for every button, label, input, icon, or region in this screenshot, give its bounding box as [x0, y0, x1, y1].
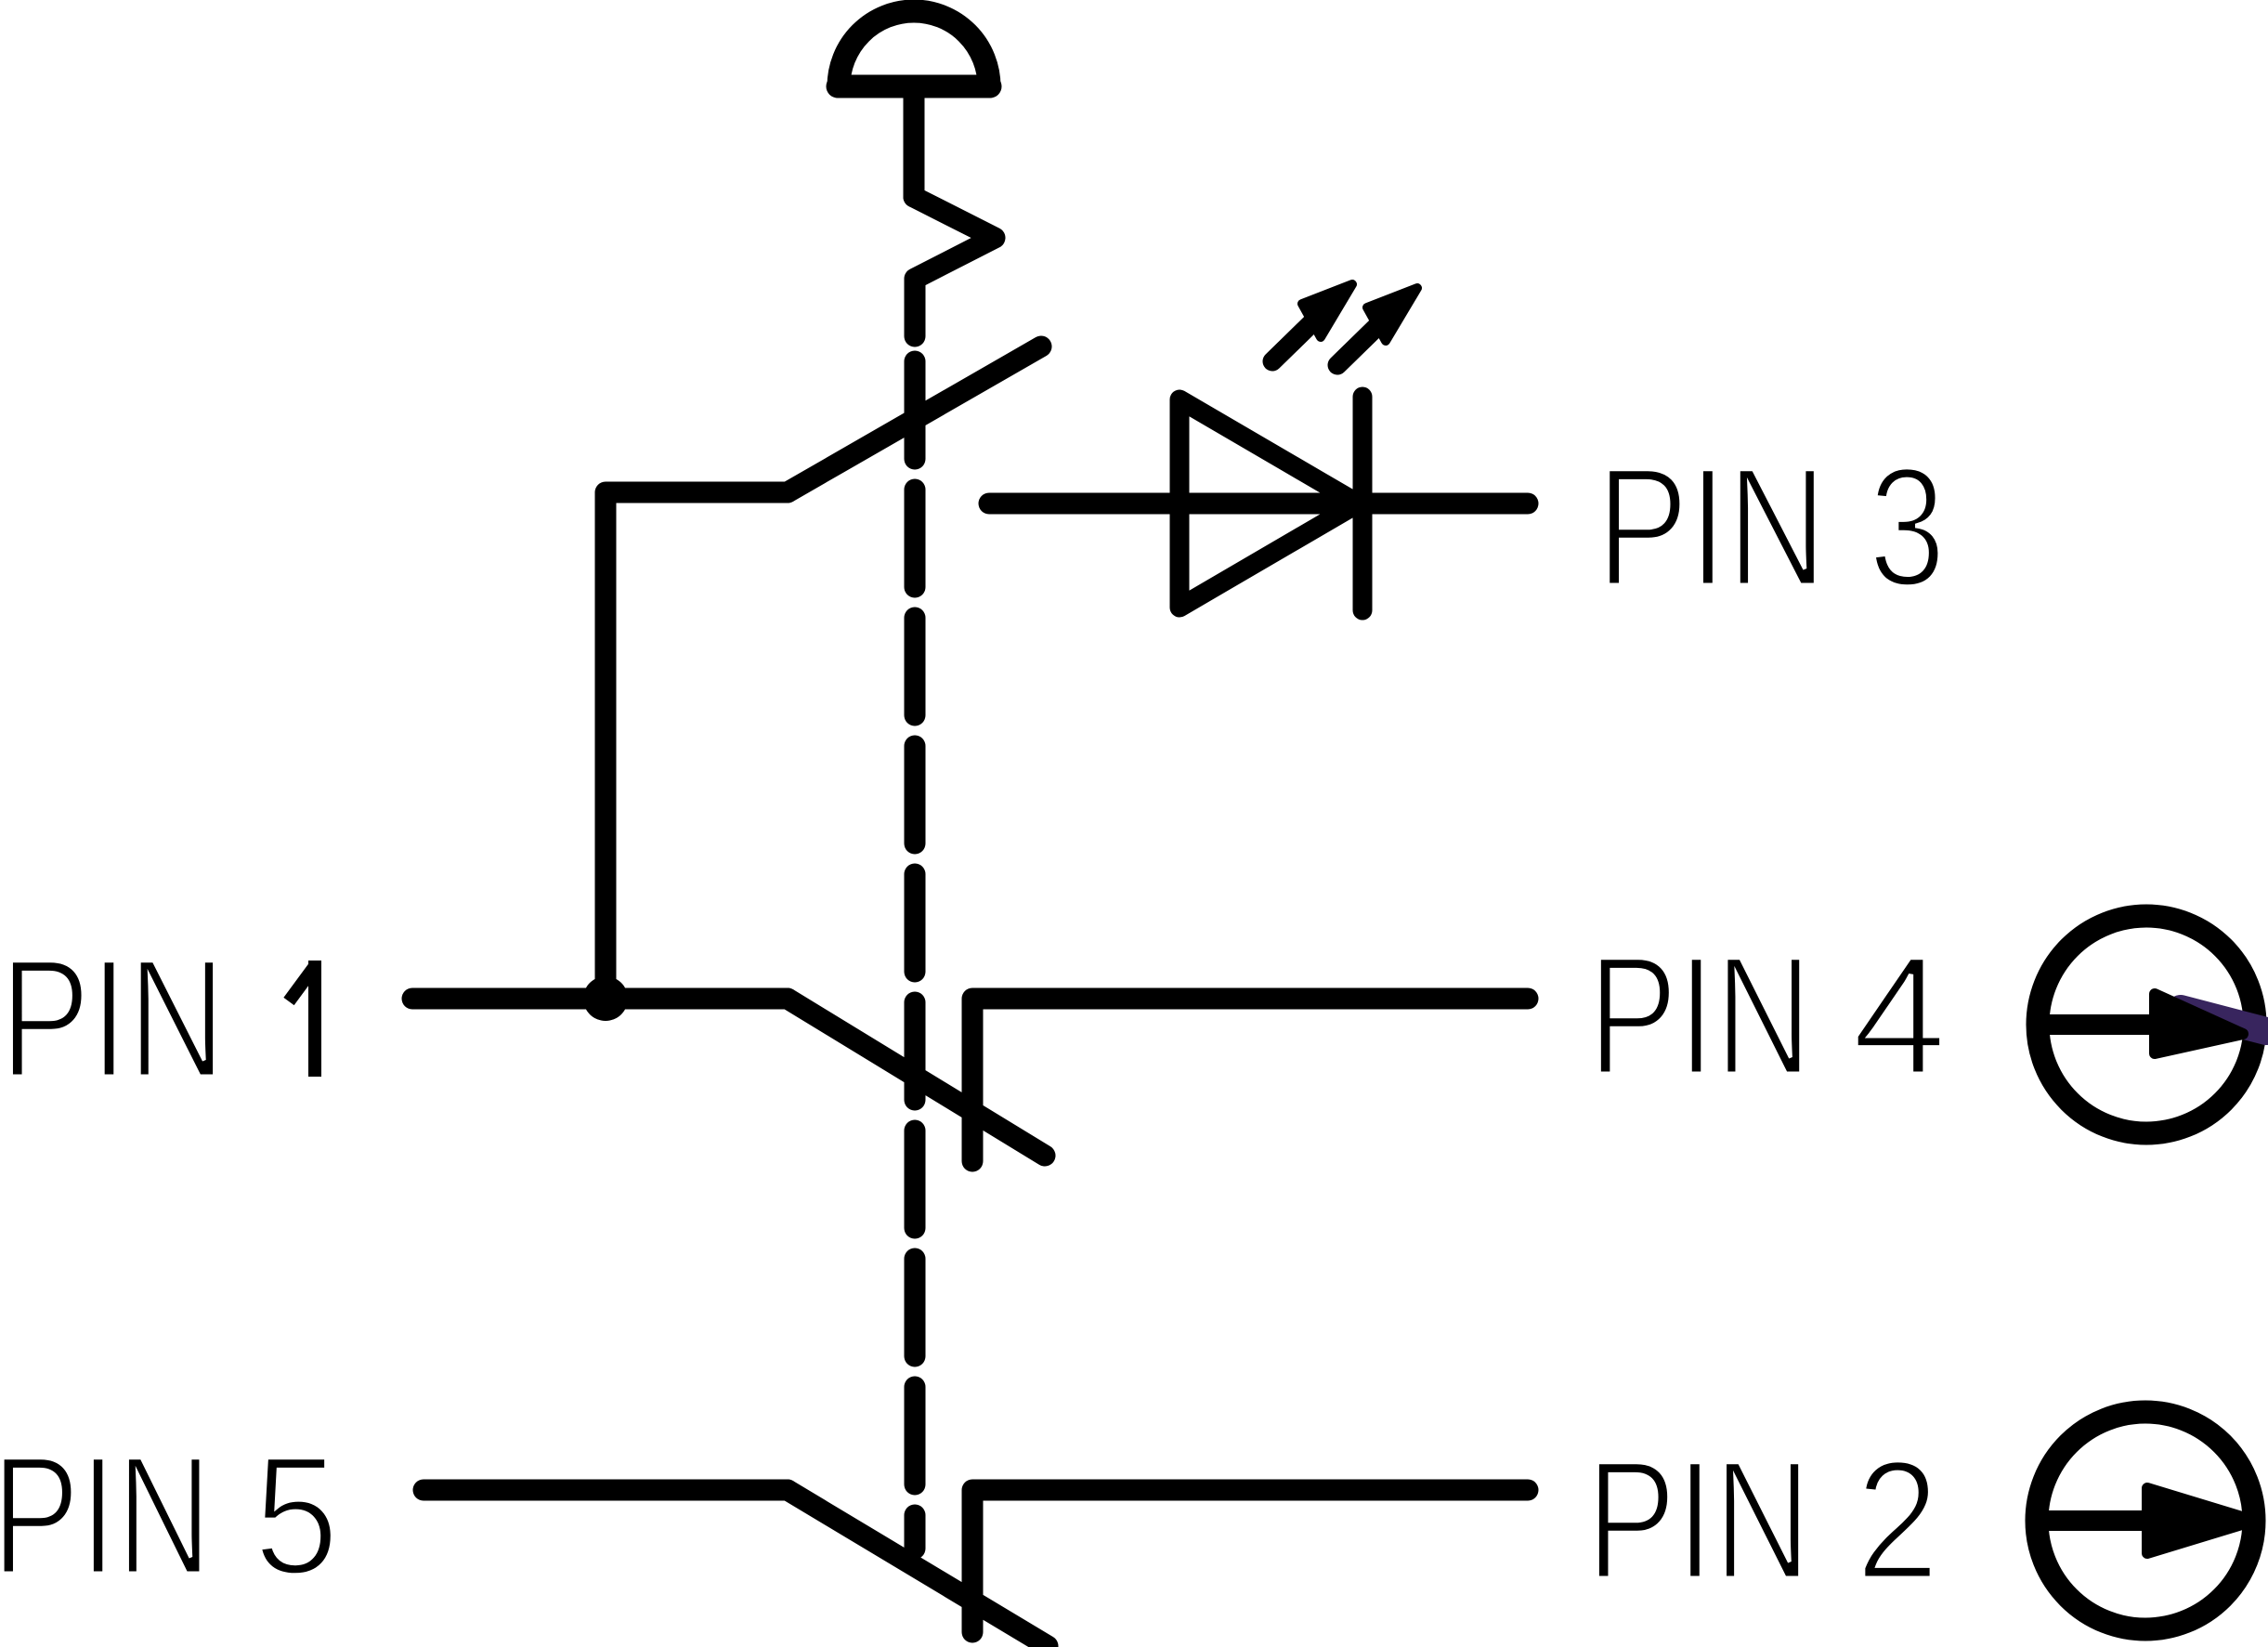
- label PIN 2: [1586, 1425, 1939, 1614]
- wire from junction to top contact: [606, 492, 788, 999]
- svg-text:5: 5: [254, 1420, 339, 1610]
- actuator stem: [904, 87, 925, 197]
- svg-text:PIN: PIN: [0, 1420, 212, 1610]
- connector symbol circle (PIN 2): [2029, 1412, 2254, 1629]
- LED anode wire to PIN 3: [989, 493, 1528, 515]
- pushbutton mushroom actuator head: [838, 11, 990, 86]
- LED light arrow 1: [1272, 284, 1352, 361]
- fixed terminal tick and wire to PIN 4: [972, 999, 1528, 1161]
- LED cathode bar: [1353, 397, 1373, 610]
- svg-text:PIN: PIN: [1597, 432, 1827, 621]
- connector symbol circle (PIN 4): [2030, 916, 2266, 1133]
- wire PIN 1: [412, 988, 788, 1010]
- LED D1 triangle: [1180, 399, 1358, 608]
- fixed terminal tick and wire to PIN 2: [972, 1490, 1528, 1632]
- label PIN 1: [0, 923, 315, 1113]
- svg-text:4: 4: [1852, 921, 1947, 1110]
- label PIN 4: [1588, 921, 1947, 1110]
- mechanical linkage (dashed): [905, 361, 926, 1549]
- wire PIN 5: [424, 1480, 788, 1501]
- svg-text:PIN: PIN: [1586, 1425, 1811, 1614]
- top contact blade (NC, LED circuit): [788, 346, 1041, 492]
- middle contact blade (PIN 1 to PIN 4): [788, 999, 1045, 1156]
- svg-text:PIN: PIN: [1588, 921, 1812, 1110]
- label PIN 3: [1597, 432, 1946, 621]
- arrowhead (PIN 2): [2147, 1488, 2254, 1553]
- stray purple arrow artifact: [2181, 1009, 2266, 1031]
- label PIN 5: [0, 1420, 339, 1610]
- junction node (PIN 1 / top contact): [583, 976, 628, 1021]
- svg-text:2: 2: [1856, 1425, 1939, 1614]
- svg-text:PIN: PIN: [0, 923, 226, 1113]
- arrowhead (PIN 4): [2155, 994, 2243, 1053]
- spring / latching element: [914, 197, 995, 336]
- svg-text:3: 3: [1869, 432, 1946, 621]
- bottom contact blade (PIN 5 to PIN 2): [788, 1490, 1048, 1646]
- LED light arrow 2: [1337, 288, 1417, 365]
